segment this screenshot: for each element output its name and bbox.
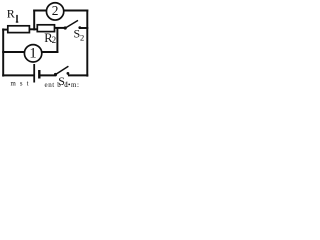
switch S1 contact dot xyxy=(67,72,70,75)
wire ammeter branch right xyxy=(42,51,57,53)
wire ammeter branch left xyxy=(3,51,25,53)
switch S1 pivot dot xyxy=(54,73,57,76)
wire R2 to S2 xyxy=(54,27,65,29)
wire top rail xyxy=(34,10,87,12)
svg-text:m s t: m s t xyxy=(11,80,30,87)
wire R1 left xyxy=(3,29,8,31)
battery short plate xyxy=(38,70,40,79)
wire left rail xyxy=(2,29,4,75)
switch S2 lever xyxy=(66,20,78,27)
svg-text:2: 2 xyxy=(52,35,57,45)
label R1 subscript xyxy=(16,15,18,22)
resistor R2 xyxy=(37,25,54,32)
svg-text:2: 2 xyxy=(80,32,84,42)
resistor R1 xyxy=(8,26,30,33)
wire bottom left xyxy=(3,74,33,76)
svg-text:1: 1 xyxy=(29,46,37,62)
wire mid vertical node xyxy=(56,28,58,52)
wire S2 to right rail xyxy=(80,27,87,29)
switch S1 lever xyxy=(56,66,68,74)
wire S1 to right rail xyxy=(69,74,87,76)
wire R1 to R2 xyxy=(29,28,38,30)
wire battery to S1 xyxy=(40,74,55,76)
battery long plate xyxy=(33,64,35,83)
wire right rail xyxy=(86,11,88,76)
svg-text:R: R xyxy=(7,6,15,20)
meter U1 circle xyxy=(24,45,41,62)
switch S2 contact dot xyxy=(78,26,81,29)
switch S2 pivot dot xyxy=(64,26,67,29)
svg-text:2: 2 xyxy=(52,3,59,18)
meter U2 circle xyxy=(46,3,63,20)
wire top-left vertical xyxy=(33,11,35,30)
svg-text:ent b·c•m;: ent b·c•m; xyxy=(45,81,80,87)
